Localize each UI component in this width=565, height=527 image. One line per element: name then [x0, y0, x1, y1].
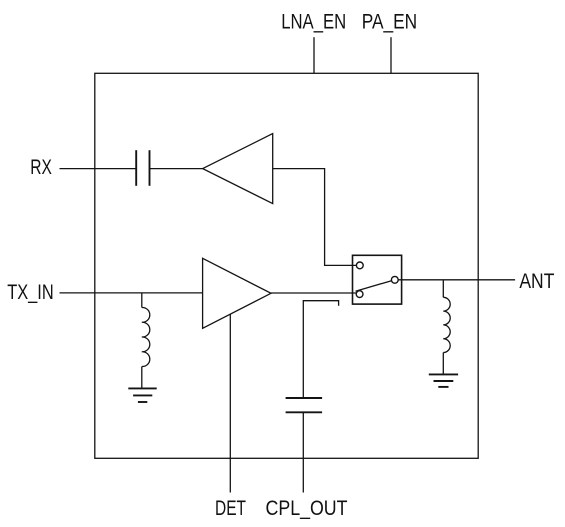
- svg-text:CPL_OUT: CPL_OUT: [266, 496, 348, 520]
- op-amp U1 LNA (points left): [203, 134, 273, 204]
- inductor L1 lead down: [141, 293, 143, 308]
- pin LNA_EN wire: [313, 37, 315, 73]
- ground G1: [128, 388, 156, 402]
- svg-text:PA_EN: PA_EN: [362, 10, 418, 34]
- wire ANT output: [398, 279, 515, 281]
- inductor L2 lead down: [442, 280, 444, 298]
- switch SW1 port TX (bottom-left circle): [356, 291, 363, 298]
- wire LNA input from switch: horizontal then down then to switch: [273, 169, 357, 266]
- svg-text:DET: DET: [215, 496, 246, 520]
- capacitor C2 (CPL_OUT cap): [286, 398, 323, 412]
- wire C1 to LNA apex: [150, 168, 203, 170]
- wire CPL_OUT pin: [302, 412, 304, 492]
- switch SW1 port RX (top-left circle): [356, 262, 363, 269]
- svg-text:TX_IN: TX_IN: [7, 280, 54, 304]
- wire RX input: [60, 168, 137, 170]
- inductor L2 coil: [443, 297, 450, 352]
- chip boundary box: [95, 73, 478, 458]
- ground G2: [429, 374, 458, 387]
- coupler sense line: [303, 301, 338, 398]
- capacitor C1 (RX series blocking cap): [136, 150, 149, 186]
- wire DET sense line: [229, 314, 231, 492]
- wire TX_IN input: [60, 292, 203, 294]
- inductor L2 lead to ground: [442, 353, 444, 375]
- switch SW1 arm: [356, 281, 392, 292]
- switch SW1 box: [353, 255, 402, 304]
- wire PA output to switch: [271, 292, 356, 294]
- switch SW1 port ANT (right circle): [391, 276, 398, 283]
- op-amp U2 PA (points right): [203, 258, 271, 328]
- inductor L1 lead to ground: [141, 367, 143, 389]
- svg-text:RX: RX: [30, 155, 52, 179]
- pin PA_EN wire: [390, 37, 392, 73]
- inductor L1 coil: [142, 307, 150, 366]
- svg-text:ANT: ANT: [519, 269, 554, 293]
- svg-text:LNA_EN: LNA_EN: [281, 10, 346, 34]
